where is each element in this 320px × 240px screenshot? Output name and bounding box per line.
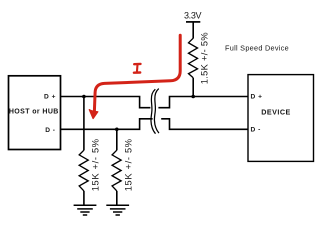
cable break squiggle left xyxy=(151,89,156,134)
svg-text:D +: D + xyxy=(44,94,56,101)
wire 3.3V bar to R1 top xyxy=(192,22,194,39)
wire D- host to cable jog xyxy=(61,119,153,130)
svg-text:D -: D - xyxy=(251,127,261,134)
node junction D- / R3 xyxy=(115,128,119,132)
wire D- cable jog to device xyxy=(161,119,248,130)
resistor R1 1.5K zigzag xyxy=(189,38,198,78)
power rail 3.3V bar xyxy=(186,21,200,23)
svg-text:Full Speed Device: Full Speed Device xyxy=(225,44,289,53)
wire D+ cable jog to device xyxy=(158,97,248,108)
cable break squiggle right xyxy=(154,89,159,133)
wire R1 bottom to D+ xyxy=(192,78,194,97)
wire D- junction down to R3 xyxy=(116,129,118,150)
svg-text:D -: D - xyxy=(45,127,55,134)
ground GND1 xyxy=(74,205,97,215)
resistor R3 15K zigzag xyxy=(112,150,121,191)
wire D+ junction down to R2 (crosses D- with no connection) xyxy=(83,97,85,151)
node junction D+ / R1 xyxy=(191,95,195,99)
device box U2 xyxy=(248,75,314,162)
svg-text:1.5K +/- 5%: 1.5K +/- 5% xyxy=(199,32,209,84)
wire R3 bottom to ground xyxy=(116,191,118,205)
current arrow annotation (red) xyxy=(89,35,180,118)
svg-text:HOST or HUB: HOST or HUB xyxy=(9,109,59,116)
current label I (red) xyxy=(134,64,141,73)
svg-text:DEVICE: DEVICE xyxy=(261,108,290,117)
node junction D+ / R2 xyxy=(82,95,86,99)
svg-text:D +: D + xyxy=(251,94,263,101)
svg-text:3.3V: 3.3V xyxy=(184,11,201,21)
svg-text:15K +/- 5%: 15K +/- 5% xyxy=(123,138,133,191)
resistor R2 15K zigzag xyxy=(79,150,88,191)
wire R2 bottom to ground xyxy=(83,191,85,205)
ground GND2 xyxy=(106,205,129,215)
svg-text:15K +/- 5%: 15K +/- 5% xyxy=(90,138,100,191)
host box U1 xyxy=(9,76,61,150)
wire D+ host to cable jog xyxy=(61,97,151,108)
